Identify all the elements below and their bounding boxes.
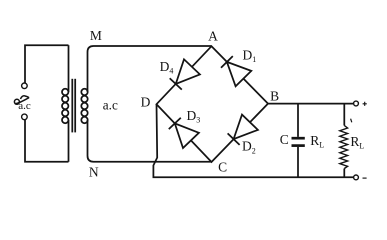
svg-text:a.c: a.c [103,97,118,112]
svg-text:a.c: a.c [18,100,31,112]
svg-text:RL: RL [350,134,364,151]
svg-text:RL: RL [310,133,324,150]
svg-text:C: C [280,132,289,147]
svg-text:A: A [208,28,218,43]
svg-text:D: D [141,95,151,110]
svg-text:B: B [270,88,279,103]
svg-text:C: C [218,160,227,175]
svg-text:D3: D3 [187,108,201,125]
svg-text:M: M [90,28,102,43]
svg-text:N: N [89,165,99,180]
svg-text:D1: D1 [243,47,257,64]
svg-text:D4: D4 [160,59,174,76]
svg-text:D2: D2 [242,139,256,156]
